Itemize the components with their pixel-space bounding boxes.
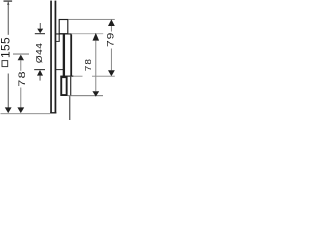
plate right edge [55, 1, 57, 114]
svg-text:78: 78 [18, 70, 28, 86]
svg-text:Ø44: Ø44 [34, 43, 44, 64]
dimension 79: upper line segment [110, 26, 113, 32]
handle step vertical [59, 34, 60, 41]
dimension 78 left: lower line segment [19, 88, 22, 108]
dimension 44: top arrowhead pointing down [37, 29, 43, 34]
plate bottom edge [50, 112, 56, 113]
dimension 79: bottom arrowhead [108, 70, 115, 76]
dimension 78 right: line [94, 41, 97, 92]
knob top edge line [56, 33, 72, 34]
extension line: top of handle (right) [68, 19, 114, 20]
dimension 78 left: upper line segment [19, 60, 22, 71]
extension line: top of knob, right part [72, 32, 104, 35]
extension line: bottom of housing (right) [68, 94, 103, 97]
knob bottom edge line [56, 68, 65, 71]
svg-text:78: 78 [84, 58, 93, 71]
pipe line upper [70, 77, 71, 96]
dimension 78 right: top arrowhead [93, 33, 100, 41]
dimension 78 left: bottom arrowhead [17, 107, 24, 113]
lower housing rectangle [61, 77, 66, 95]
lever bar outer [70, 35, 72, 77]
dimension 79: lower line segment [110, 49, 113, 71]
dimension 44: bottom arrowhead pointing up [37, 70, 43, 76]
dimension 78 right: bottom arrowhead [92, 91, 99, 96]
svg-text:79: 79 [106, 32, 116, 47]
pipe line lower [69, 96, 70, 120]
extension line: bottom of handle, right part b [92, 75, 115, 78]
dimension 79: top arrowhead [108, 19, 115, 26]
square symbol of 155 label [2, 61, 8, 67]
dimension 155: upper line segment [7, 2, 10, 35]
handle bottom edge line [60, 76, 73, 77]
plate left edge [50, 1, 52, 114]
dimension 44: top extension line [35, 33, 45, 34]
extension line: center axis (left) [13, 53, 29, 56]
handle top tab outline [59, 20, 68, 34]
lever bar inner [63, 35, 65, 77]
dimension 44: top tail [39, 23, 42, 29]
extension line: bottom of plate [1, 112, 51, 115]
dimension 44: bottom extension line [34, 69, 45, 70]
dimension 155: top end tick [4, 1, 13, 2]
dimension 44: bottom tail [39, 76, 42, 81]
dimension 155: lower line segment [7, 74, 10, 108]
dimension 155: bottom arrowhead [5, 107, 12, 113]
handle step horizontal [55, 40, 60, 43]
dimension 155: top arrowhead [7, 2, 9, 5]
extension line: bottom of handle, right part a [73, 75, 82, 78]
svg-text:155: 155 [0, 37, 13, 58]
dimension 78 left: top arrowhead [18, 55, 24, 61]
